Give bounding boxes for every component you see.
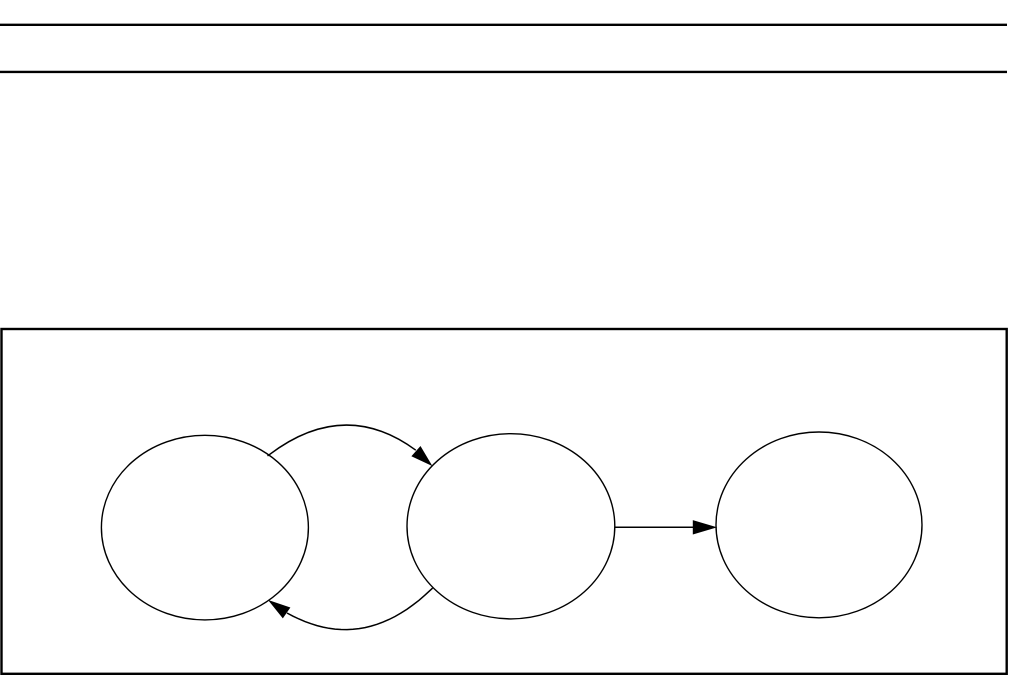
arrowhead of upper curved arrow [412, 447, 431, 465]
arrowhead of lower curved arrow [270, 601, 290, 618]
top header rule 1 [0, 24, 1007, 26]
edge: node1 -> node2 (upper curved arrow) [268, 425, 416, 456]
state node 3 (right ellipse) [716, 432, 922, 618]
edge: node2 -> node1 (lower curved arrow) [287, 588, 433, 630]
top header rule 2 [0, 71, 1007, 73]
figure box frame [2, 329, 1007, 674]
state node 2 (middle ellipse) [407, 434, 615, 619]
arrowhead of straight arrow [693, 521, 715, 534]
state node 1 (left ellipse) [101, 435, 308, 620]
edge: node2 -> node3 (straight arrow) [615, 526, 694, 528]
